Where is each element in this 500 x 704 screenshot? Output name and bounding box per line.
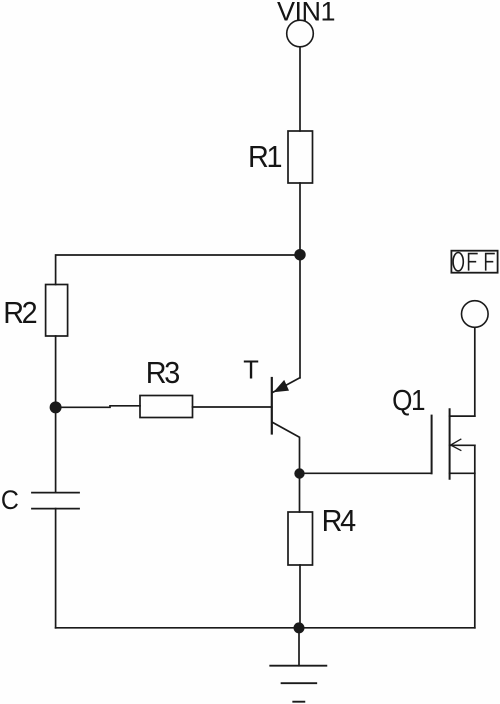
svg-text:R2: R2 xyxy=(3,296,37,330)
wire node C to Q1 gate xyxy=(300,472,432,474)
mosfet Q1 body arrow xyxy=(451,439,461,450)
svg-text:VIN1: VIN1 xyxy=(277,0,335,26)
transistor T emitter lead xyxy=(273,378,300,393)
svg-text:T: T xyxy=(243,357,259,385)
capacitor C top plate xyxy=(32,492,79,494)
wire R1 to node A xyxy=(299,183,301,255)
terminal VIN1 xyxy=(287,20,314,47)
mosfet Q1 gate bar xyxy=(431,416,433,474)
switch box OFF xyxy=(451,251,497,273)
mosfet Q1 body stub xyxy=(450,444,475,446)
resistor R3 xyxy=(140,396,193,418)
mosfet Q1 drain stub xyxy=(450,415,475,417)
svg-text:C: C xyxy=(1,486,19,515)
mosfet Q1 channel bar xyxy=(449,409,451,479)
svg-text:R1: R1 xyxy=(248,140,282,174)
node B junction dot xyxy=(50,401,62,413)
wire Q1 source to ground rail xyxy=(474,445,476,628)
wire Q1 drain to terminal xyxy=(474,328,476,417)
resistor R2 xyxy=(46,285,68,337)
ground symbol bar 3 xyxy=(293,701,304,703)
ground symbol bar 2 xyxy=(282,682,317,684)
node D junction dot xyxy=(294,622,305,633)
ground rail xyxy=(56,627,475,629)
label OFF xyxy=(453,253,495,271)
node A junction dot xyxy=(294,249,305,260)
svg-text:R4: R4 xyxy=(322,504,356,538)
wire node C to R4 xyxy=(299,474,301,513)
node C junction dot xyxy=(294,468,304,478)
wire node A to T emitter xyxy=(299,255,301,378)
resistor R4 xyxy=(288,512,313,565)
wire R4 to node D xyxy=(299,565,301,628)
capacitor C bottom plate xyxy=(32,508,79,510)
wire VIN1 to R1 xyxy=(299,47,301,131)
wire capacitor to ground rail xyxy=(55,509,57,628)
transistor T emitter arrow xyxy=(273,380,289,392)
svg-text:R3: R3 xyxy=(146,356,180,390)
wire R2 to node B xyxy=(55,336,57,407)
terminal OFF xyxy=(462,301,489,328)
mosfet Q1 source stub xyxy=(450,472,475,474)
ground symbol bar 1 xyxy=(270,665,326,667)
wire R3 to transistor T base xyxy=(193,406,272,408)
transistor T collector lead xyxy=(273,423,300,474)
resistor R1 xyxy=(288,131,313,183)
ground symbol stem xyxy=(298,628,300,666)
wire node B to capacitor C xyxy=(55,407,57,493)
wire node B to R3 xyxy=(56,406,140,408)
wire node A to R2 xyxy=(56,255,300,285)
svg-text:Q1: Q1 xyxy=(392,384,424,417)
transistor T base bar xyxy=(271,378,273,434)
